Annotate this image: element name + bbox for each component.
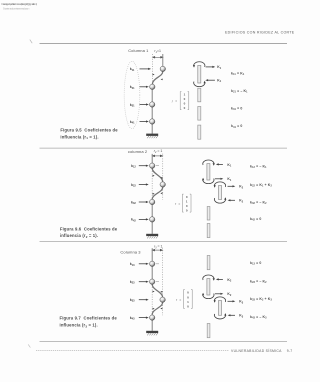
node 2 bbox=[160, 182, 165, 187]
curl arrowhead bottom (right end) bbox=[224, 197, 226, 200]
svg-text:=: = bbox=[178, 202, 180, 206]
story element 3 (plain) bbox=[207, 207, 210, 221]
svg-text:k33 = K2 + K3: k33 = K2 + K3 bbox=[250, 297, 272, 302]
story element 3 (plain) bbox=[198, 107, 201, 121]
svg-text:=: = bbox=[179, 298, 181, 302]
deflection tick b bbox=[160, 291, 162, 293]
dimension line r3 bbox=[152, 249, 162, 251]
story element 3 (loaded, offset) bbox=[219, 301, 222, 316]
arrow k42 bbox=[139, 218, 149, 220]
deflected segment 2 (S-curve) bbox=[152, 284, 162, 297]
r vector bbox=[172, 92, 189, 110]
original axis between nodes 1-3 (dashed) bbox=[151, 169, 153, 200]
deflection tick d bbox=[153, 193, 155, 195]
separator rule 1 bbox=[40, 147, 288, 149]
displaced top stub bbox=[162, 54, 164, 67]
story element 4 (plain) bbox=[207, 324, 210, 338]
svg-text:k23: k23 bbox=[130, 280, 135, 285]
svg-text:k13 = 0: k13 = 0 bbox=[250, 261, 261, 266]
shear arrow top element 1 (left) bbox=[216, 163, 223, 165]
story element 1 (plain) bbox=[207, 256, 210, 270]
arrow k21 bbox=[140, 86, 149, 88]
r vector bbox=[175, 194, 191, 212]
node 1 bbox=[150, 261, 155, 266]
deflected segment 2 (S-curve) bbox=[152, 187, 163, 199]
column 3 upper shaft bbox=[151, 248, 153, 282]
moment curl bottom of element 1 bbox=[194, 82, 205, 87]
column 2 top stub bbox=[151, 154, 153, 163]
node 2 bbox=[150, 279, 155, 284]
story element 4 (plain) bbox=[207, 224, 210, 238]
original axis (dashed) bbox=[151, 54, 153, 84]
node 3 bbox=[150, 102, 155, 107]
scan artifact tick upper left bbox=[30, 40, 32, 44]
svg-text:Encuentra mas documentos en ww: Encuentra mas documentos en www.udocz.co… bbox=[3, 7, 30, 10]
arrow k11 bbox=[140, 68, 152, 70]
fixed base support bbox=[146, 134, 158, 139]
fixed base support bbox=[146, 234, 158, 239]
svg-text:k41 = 0: k41 = 0 bbox=[231, 124, 242, 129]
node 1 bbox=[150, 163, 155, 168]
svg-text:columna 2: columna 2 bbox=[128, 149, 148, 154]
deflection tick a bbox=[153, 291, 155, 293]
arrow k33 bbox=[139, 299, 149, 301]
deflection tick c bbox=[160, 308, 162, 310]
story element 1 (loaded) bbox=[207, 164, 210, 180]
node 3 bbox=[150, 199, 155, 204]
svg-text:Figura 9.7 Coeficientes de: Figura 9.7 Coeficientes de bbox=[60, 316, 118, 321]
svg-text:k23 = – K2: k23 = – K2 bbox=[250, 280, 267, 285]
small dash right of node 2 bbox=[156, 281, 159, 283]
svg-text:Descargado por Arturo Gomez (a: Descargado por Arturo Gomez (arturog12@g… bbox=[2, 2, 38, 6]
small dash right of node 1 bbox=[156, 263, 159, 265]
arrow k22 bbox=[139, 183, 149, 185]
shear arrow bottom element 2 (left) bbox=[228, 199, 235, 201]
dotted ellipse around k labels bbox=[124, 61, 140, 128]
deflection tick c bbox=[160, 192, 162, 194]
curl arrowhead top (left end) bbox=[214, 300, 216, 303]
moment curl top of element 3 bbox=[214, 297, 225, 302]
story element 2 (loaded, offset) bbox=[219, 186, 222, 200]
moment curl top of element 2 bbox=[214, 182, 225, 187]
story element 2 (plain) bbox=[198, 88, 201, 102]
curl arrowhead bottom (left end) bbox=[202, 293, 204, 296]
node 4 bbox=[150, 119, 155, 124]
svg-text:=: = bbox=[175, 99, 177, 103]
deflection tick b bbox=[160, 177, 162, 179]
displaced position line (dashed) bbox=[162, 154, 164, 200]
deflection tick d bbox=[153, 308, 155, 310]
svg-text:K1: K1 bbox=[217, 79, 221, 84]
original axis between nodes 2-4 (dashed) bbox=[151, 285, 153, 315]
arrow k12 bbox=[139, 165, 149, 167]
arrow k32 bbox=[139, 201, 149, 203]
column 3 lower shaft bbox=[151, 318, 153, 331]
displaced position line (dashed) bbox=[162, 248, 164, 297]
deflection tick a bbox=[153, 74, 155, 76]
moment curl top of element 2 bbox=[203, 275, 214, 280]
svg-text:k33: k33 bbox=[130, 298, 135, 303]
shear arrow top element 2 (right) bbox=[228, 185, 236, 187]
shear arrow bottom element 2 (right) bbox=[215, 293, 223, 295]
node 3 bbox=[160, 297, 165, 302]
svg-text:Columna 1: Columna 1 bbox=[128, 48, 149, 53]
shear arrow E1 top (right) bbox=[206, 66, 216, 68]
deflected segment 1 (S-curve) bbox=[152, 168, 163, 181]
arrow k13 bbox=[139, 263, 149, 265]
fixed base support bbox=[146, 331, 158, 336]
curl arrowhead top (left end) bbox=[193, 65, 195, 68]
curl arrowhead top (right end) bbox=[213, 163, 215, 166]
story element 1 (loaded) bbox=[198, 65, 201, 83]
displaced line below node 3 (dashed) bbox=[162, 303, 164, 316]
separator rule 3 bbox=[40, 341, 288, 343]
curl arrowhead bottom (right end) bbox=[224, 313, 226, 316]
moment curl top of element 1 bbox=[203, 160, 214, 165]
svg-text:k12: k12 bbox=[131, 164, 136, 169]
svg-text:Figura 9.6 Coeficientes de: Figura 9.6 Coeficientes de bbox=[60, 226, 118, 231]
node 4 bbox=[150, 217, 155, 222]
dimension line r1 bbox=[153, 56, 163, 58]
moment curl bottom of element 1 bbox=[203, 179, 214, 184]
moment curl bottom of element 2 bbox=[203, 294, 214, 299]
scan artifact tick lower left bbox=[28, 344, 30, 347]
arrow k43 bbox=[139, 317, 149, 319]
moment curl top of element 1 bbox=[194, 62, 205, 67]
shear arrow E1 bottom (left) bbox=[205, 79, 215, 81]
story element 4 (plain) bbox=[198, 125, 201, 139]
node 1 bbox=[160, 66, 165, 71]
curl arrowhead bottom (right end) bbox=[204, 81, 206, 84]
svg-text:EDIFICIOS CON RIGIDEZ AL CORTE: EDIFICIOS CON RIGIDEZ AL CORTE bbox=[225, 31, 295, 35]
deflected segment 1 (S-curve) bbox=[152, 71, 162, 84]
column 2 lower shaft bbox=[151, 205, 153, 234]
curl arrowhead bottom (left end) bbox=[202, 178, 204, 181]
svg-text:Figura 9.5 Coeficientes de: Figura 9.5 Coeficientes de bbox=[60, 128, 118, 133]
svg-text:Columna 3: Columna 3 bbox=[120, 249, 141, 254]
deflected segment 3 (S-curve) bbox=[152, 302, 162, 314]
shear arrow bottom element 3 (left) bbox=[228, 314, 235, 316]
arrow k31 bbox=[140, 103, 149, 105]
svg-text:k31 = 0: k31 = 0 bbox=[231, 106, 242, 111]
footer leader line bbox=[36, 349, 229, 351]
header rule bbox=[40, 42, 288, 44]
svg-text:k43 = – K3: k43 = – K3 bbox=[250, 315, 267, 320]
svg-text:k42 = 0: k42 = 0 bbox=[250, 217, 261, 222]
shear arrow bottom element 1 (right) bbox=[215, 178, 223, 180]
moment curl bottom of element 3 bbox=[214, 314, 225, 319]
deflection tick a bbox=[153, 175, 155, 177]
svg-text:VULNERABILIDAD SÍSMICA 9-7: VULNERABILIDAD SÍSMICA 9-7 bbox=[231, 349, 292, 353]
curl arrowhead top (right end) bbox=[213, 278, 215, 281]
story element 2 (loaded) bbox=[207, 279, 210, 295]
dimension line r2 bbox=[152, 155, 162, 157]
node 2 bbox=[150, 84, 155, 89]
shear arrow top element 2 (left) bbox=[216, 278, 223, 280]
deflection tick b bbox=[161, 79, 163, 81]
r vector bbox=[176, 290, 192, 309]
curl arrowhead top (left end) bbox=[214, 185, 216, 188]
shear arrow top element 3 (right) bbox=[228, 300, 236, 302]
moment curl bottom of element 2 bbox=[214, 198, 225, 203]
small dash right of node 1 bbox=[156, 165, 159, 167]
column 1 lower shaft bbox=[151, 87, 153, 134]
arrow k41 bbox=[140, 120, 149, 122]
node 4 bbox=[150, 315, 155, 320]
separator rule 2 bbox=[40, 241, 288, 243]
arrow k23 bbox=[139, 281, 149, 283]
